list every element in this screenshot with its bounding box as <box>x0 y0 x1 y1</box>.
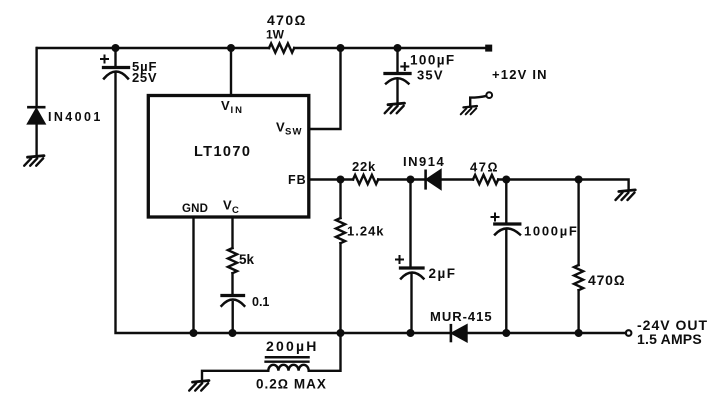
capacitor C1 5uF 25V <box>101 48 129 79</box>
wire 22k to diode <box>378 178 424 180</box>
junction top rail at 5uF <box>112 44 120 52</box>
svg-text:200µH: 200µH <box>266 338 319 354</box>
svg-text:V: V <box>276 120 285 135</box>
wire diode to 47ohm <box>441 178 474 180</box>
svg-text:V: V <box>221 98 230 113</box>
diode D3 MUR-415 <box>451 325 467 341</box>
junction top rail at 100uF <box>394 44 402 52</box>
svg-text:470Ω: 470Ω <box>267 12 307 28</box>
wire left branch to diode <box>35 48 37 107</box>
svg-text:V: V <box>223 198 232 213</box>
junction bottom rail at GND pin <box>190 329 198 337</box>
junction FB row at 470ohm <box>575 176 583 184</box>
IC U1 LT1070 <box>148 96 308 218</box>
ground of inductor <box>189 381 209 391</box>
resistor R6 5k <box>228 217 237 295</box>
svg-text:1.24k: 1.24k <box>347 224 385 239</box>
wire GND pin to rail <box>192 217 194 333</box>
input ground jack <box>470 92 492 106</box>
junction top rail at Vsw riser <box>337 44 345 52</box>
ground under 1N4001 <box>24 156 44 166</box>
wire Vin riser <box>230 48 232 95</box>
wire FB stub <box>309 178 353 180</box>
svg-text:IN4001: IN4001 <box>48 110 103 124</box>
capacitor C4 1000uF <box>492 180 521 334</box>
svg-text:LT1070: LT1070 <box>194 144 251 160</box>
resistor R5 470ohm output <box>574 180 583 334</box>
wire top rail left segment <box>37 47 269 49</box>
svg-text:100µF: 100µF <box>410 53 456 68</box>
wire bottom rail right segment <box>468 332 626 334</box>
resistor R3 47ohm <box>473 175 498 184</box>
svg-text:GND: GND <box>182 203 208 215</box>
wire FB row right segment <box>498 180 628 191</box>
junction bottom rail at 470ohm <box>575 329 583 337</box>
ground under 100uF <box>385 103 405 113</box>
junction FB row at 1000uF <box>502 176 510 184</box>
svg-text:IN: IN <box>231 105 245 116</box>
output terminal -24V OUT <box>626 330 632 336</box>
svg-text:FB: FB <box>288 173 307 187</box>
svg-text:47Ω: 47Ω <box>470 160 499 175</box>
svg-text:SW: SW <box>285 127 303 138</box>
svg-text:0.1: 0.1 <box>252 295 269 309</box>
resistor R4 1.24k <box>336 180 345 334</box>
svg-text:25V: 25V <box>132 70 157 85</box>
ground FB row right <box>616 190 636 200</box>
wire 5uF bottom to rail and bottom rail left <box>116 73 450 334</box>
diode D2 1N914 <box>426 171 441 189</box>
junction bottom rail at inductor riser <box>337 329 345 337</box>
junction top rail at Vin <box>227 44 235 52</box>
junction FB row at 2uF <box>407 176 415 184</box>
capacitor C3 2uF <box>396 180 424 334</box>
svg-text:22k: 22k <box>352 159 376 174</box>
wire riser to inductor row <box>309 333 341 371</box>
svg-text:1W: 1W <box>266 28 285 42</box>
svg-text:+12V IN: +12V IN <box>492 67 548 82</box>
junction bottom rail at 1000uF <box>502 329 510 337</box>
svg-text:1000µF: 1000µF <box>524 224 579 239</box>
capacitor C2 100uF 35V <box>385 48 410 104</box>
junction bottom rail at 2uF <box>407 329 415 337</box>
input terminal +12V IN <box>485 45 492 52</box>
svg-text:35V: 35V <box>417 68 444 83</box>
svg-text:470Ω: 470Ω <box>588 272 625 288</box>
svg-text:0.2Ω MAX: 0.2Ω MAX <box>256 377 327 392</box>
svg-text:2µF: 2µF <box>429 266 457 281</box>
junction bottom rail at 0.1 <box>229 329 237 337</box>
inductor L1 200uH <box>266 357 309 371</box>
capacitor C5 0.1 <box>222 296 245 334</box>
resistor R2 22k <box>353 175 378 184</box>
svg-text:5k: 5k <box>239 252 255 267</box>
wire top rail right segment <box>294 47 486 49</box>
svg-text:C: C <box>232 205 239 216</box>
diode D1 1N4001 <box>28 107 44 156</box>
wire Vsw stub <box>309 48 341 129</box>
svg-text:1.5 AMPS: 1.5 AMPS <box>637 331 702 347</box>
resistor R1 470ohm 1W <box>269 43 294 52</box>
svg-text:IN914: IN914 <box>403 154 445 169</box>
junction FB row at 1.24k <box>337 176 345 184</box>
ground of input jack <box>461 106 477 114</box>
svg-text:MUR-415: MUR-415 <box>430 309 493 324</box>
wire inductor to ground <box>202 371 268 381</box>
